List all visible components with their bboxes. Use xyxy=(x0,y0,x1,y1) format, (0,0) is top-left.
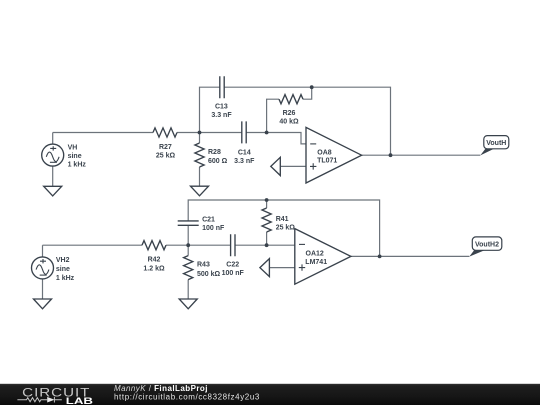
svg-text:http://circuitlab.com/cc8328fz: http://circuitlab.com/cc8328fz4y2u3 xyxy=(114,393,260,402)
svg-text:25 kΩ: 25 kΩ xyxy=(276,225,296,232)
svg-text:OA8: OA8 xyxy=(317,149,332,156)
svg-text:VH2: VH2 xyxy=(56,257,70,264)
svg-text:VoutH2: VoutH2 xyxy=(475,242,499,249)
svg-text:LAB: LAB xyxy=(66,395,94,405)
svg-text:R42: R42 xyxy=(148,257,161,264)
svg-text:R43: R43 xyxy=(197,262,210,269)
svg-text:LM741: LM741 xyxy=(305,259,327,266)
svg-text:VH: VH xyxy=(68,144,78,151)
svg-text:3.3 nF: 3.3 nF xyxy=(211,112,232,119)
svg-text:OA12: OA12 xyxy=(306,250,324,257)
svg-text:C21: C21 xyxy=(202,217,215,224)
svg-text:100 nF: 100 nF xyxy=(222,270,245,277)
svg-text:sine: sine xyxy=(56,266,70,273)
svg-text:R41: R41 xyxy=(276,216,289,223)
svg-text:R27: R27 xyxy=(159,144,172,151)
svg-text:R28: R28 xyxy=(208,149,221,156)
svg-text:sine: sine xyxy=(68,153,82,160)
svg-text:R26: R26 xyxy=(283,110,296,117)
svg-text:C13: C13 xyxy=(215,104,228,111)
svg-text:3.3 nF: 3.3 nF xyxy=(234,158,255,165)
svg-text:VoutH: VoutH xyxy=(486,140,506,147)
svg-text:1 kHz: 1 kHz xyxy=(56,275,75,282)
svg-text:500 kΩ: 500 kΩ xyxy=(197,271,221,278)
svg-text:1 kHz: 1 kHz xyxy=(68,162,87,169)
svg-text:600 Ω: 600 Ω xyxy=(208,158,228,165)
svg-text:C22: C22 xyxy=(226,262,239,269)
svg-text:TL071: TL071 xyxy=(317,158,337,165)
svg-text:25 kΩ: 25 kΩ xyxy=(156,152,176,159)
svg-text:40 kΩ: 40 kΩ xyxy=(279,118,299,125)
svg-text:C14: C14 xyxy=(238,149,251,156)
svg-text:100 nF: 100 nF xyxy=(202,225,225,232)
svg-text:1.2 kΩ: 1.2 kΩ xyxy=(143,265,165,272)
